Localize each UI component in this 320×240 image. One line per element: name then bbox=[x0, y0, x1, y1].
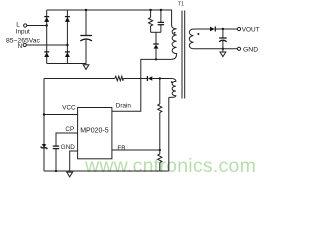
capacitor C2 snubber bbox=[158, 10, 164, 32]
node snubber C top bbox=[160, 9, 162, 11]
wire snubber bottom join bbox=[151, 31, 161, 33]
node CP cap ground bbox=[55, 170, 57, 172]
wire primary bottom to drain bbox=[112, 59, 172, 111]
diode D7 VCC bbox=[147, 76, 152, 81]
wire divider bottom bbox=[159, 163, 161, 172]
node output cap top bbox=[222, 28, 224, 30]
node secondary polarity dot bbox=[197, 33, 199, 35]
svg-text:T1: T1 bbox=[178, 1, 184, 7]
terminal GND output bbox=[237, 47, 240, 50]
wire resistor to diode bbox=[123, 78, 147, 80]
ground arrow primary bus bbox=[83, 65, 89, 70]
transformer T1 primary winding bbox=[172, 25, 177, 59]
svg-text:Input: Input bbox=[16, 29, 30, 36]
wire VCC rail bbox=[44, 78, 115, 80]
IC U1 MP020-5 bbox=[78, 108, 112, 159]
transformer T1 core bbox=[182, 11, 185, 99]
ground arrow IC bbox=[67, 172, 73, 177]
svg-text:GND: GND bbox=[61, 144, 75, 151]
node aux polarity dot bbox=[171, 81, 173, 83]
wire top rail bbox=[47, 10, 172, 25]
wire CP pin bbox=[56, 133, 78, 146]
transformer T1 aux winding bbox=[169, 79, 176, 98]
wire bottom ground rail bbox=[44, 170, 169, 172]
wire snubber to diode bbox=[155, 32, 157, 44]
wire clamp diode to primary bottom bbox=[155, 49, 157, 60]
capacitor C3 output bbox=[219, 29, 227, 49]
wire N input bbox=[26, 44, 67, 46]
svg-text:85~265Vac: 85~265Vac bbox=[6, 38, 40, 45]
node bulk cap top bbox=[85, 9, 87, 11]
wire bridge bottom rail bbox=[47, 64, 86, 66]
terminal N bbox=[23, 43, 26, 46]
wire divider middle bbox=[159, 113, 161, 155]
svg-text:N: N bbox=[18, 43, 23, 50]
transformer T1 secondary winding bbox=[189, 29, 193, 49]
wire FB pin bbox=[112, 149, 160, 151]
wire bridge left branch bbox=[46, 10, 48, 64]
wire bridge right branch bbox=[66, 10, 68, 64]
wire left VCC bus bbox=[43, 79, 45, 172]
node output cap bottom bbox=[222, 48, 224, 50]
node N-bridge junction bbox=[66, 44, 68, 46]
wire VCC pin bbox=[44, 114, 78, 116]
diode D5 clamp bbox=[153, 44, 159, 49]
node FB junction bbox=[159, 149, 161, 151]
wire diode to VOUT bbox=[215, 28, 237, 30]
wire L input bbox=[27, 25, 47, 27]
node primary polarity dot bbox=[174, 32, 176, 34]
svg-text:GND: GND bbox=[243, 47, 258, 54]
diode D6 output rectifier bbox=[210, 27, 215, 32]
node VCC bus junction bbox=[43, 113, 45, 115]
diode D3 bridge lower-left bbox=[44, 52, 49, 57]
wire diode to aux winding bbox=[152, 78, 171, 80]
node clamp junction bbox=[155, 58, 157, 60]
capacitor C4 CP bbox=[53, 146, 59, 171]
resistor R4 divider lower bbox=[158, 154, 162, 163]
node snubber R top bbox=[149, 9, 151, 11]
diode D4 bridge lower-right bbox=[65, 52, 70, 57]
diode D2 bridge upper-right bbox=[65, 17, 70, 22]
svg-text:L: L bbox=[16, 22, 20, 29]
terminal VOUT bbox=[237, 27, 240, 30]
resistor R1 snubber bbox=[149, 10, 153, 32]
svg-text:CP: CP bbox=[65, 126, 74, 133]
terminal L bbox=[24, 24, 27, 27]
wire secondary top bbox=[194, 28, 211, 30]
zener Z1 bbox=[41, 144, 48, 149]
svg-text:MP020-5: MP020-5 bbox=[80, 127, 109, 134]
wire divider upper bbox=[159, 79, 161, 105]
wire aux bottom return bbox=[168, 97, 170, 170]
ground arrow secondary bbox=[220, 52, 226, 57]
svg-text:Drain: Drain bbox=[116, 102, 132, 109]
node FB divider top bbox=[159, 77, 161, 79]
resistor R3 divider upper bbox=[158, 104, 162, 113]
wire GND pin bbox=[70, 151, 78, 172]
node L-bridge junction bbox=[46, 24, 48, 26]
resistor R2 startup bbox=[115, 76, 124, 81]
capacitor C1 bulk bbox=[80, 10, 92, 64]
svg-text:VOUT: VOUT bbox=[242, 27, 260, 34]
svg-text:FB: FB bbox=[117, 145, 125, 152]
diode D1 bridge upper-left bbox=[44, 17, 49, 22]
wire output ground stem bbox=[222, 49, 224, 52]
svg-text:VCC: VCC bbox=[62, 105, 76, 112]
wire secondary bottom bbox=[194, 48, 238, 50]
